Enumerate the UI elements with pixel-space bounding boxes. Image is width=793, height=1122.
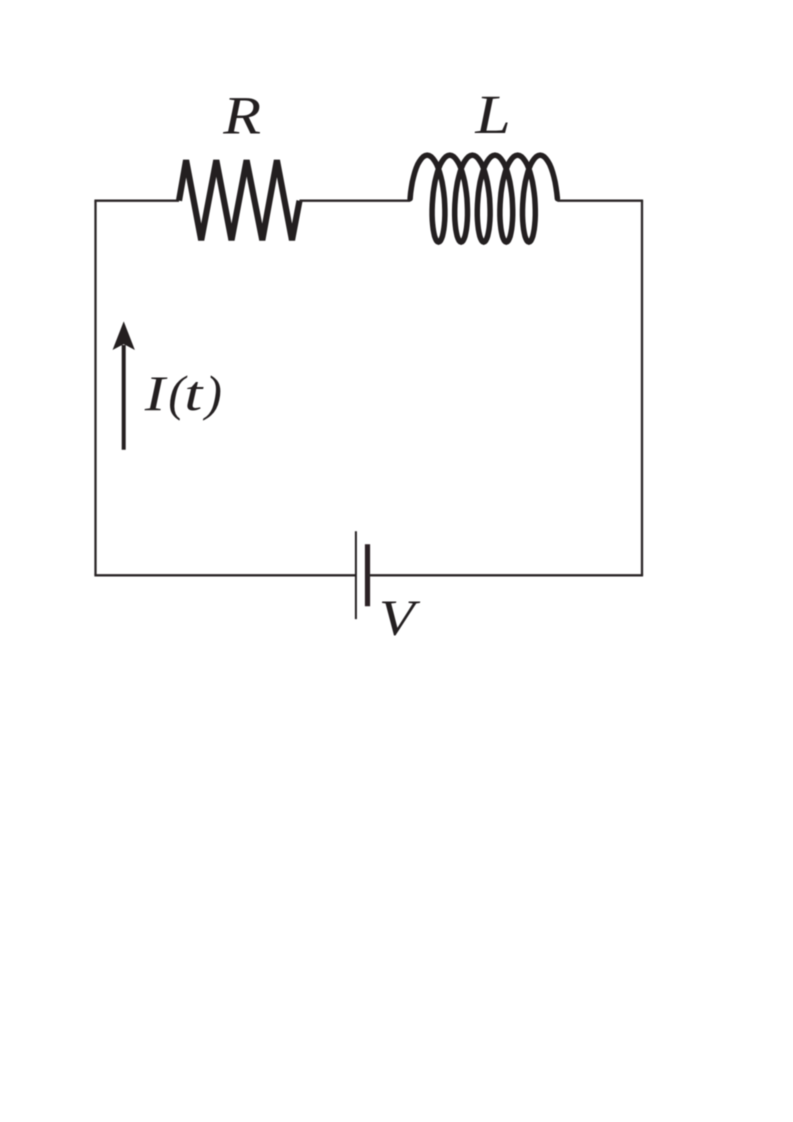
current arrow I(t) shaft — [122, 345, 126, 450]
svg-text:R: R — [222, 85, 261, 146]
wire bottom-right (battery to corner) — [368, 574, 644, 576]
svg-text:V: V — [379, 590, 421, 646]
svg-text:t: t — [184, 365, 204, 421]
svg-text:): ) — [202, 365, 222, 421]
battery plate thick (short) — [365, 544, 370, 606]
svg-text:L: L — [474, 84, 510, 145]
wire between resistor and inductor — [300, 200, 411, 202]
wire bottom-left (corner to battery) — [94, 574, 356, 576]
battery plate thin (long) — [355, 531, 357, 619]
svg-text:I: I — [144, 366, 168, 422]
wire top-right (inductor to corner) — [557, 200, 643, 202]
wire left vertical — [94, 201, 96, 576]
current label I(t) — [144, 365, 222, 422]
inductor L coil — [410, 155, 557, 242]
current arrow head — [114, 323, 134, 349]
wire top-left (corner to resistor) — [94, 200, 179, 202]
wire right vertical — [641, 201, 643, 576]
resistor R — [179, 160, 300, 240]
